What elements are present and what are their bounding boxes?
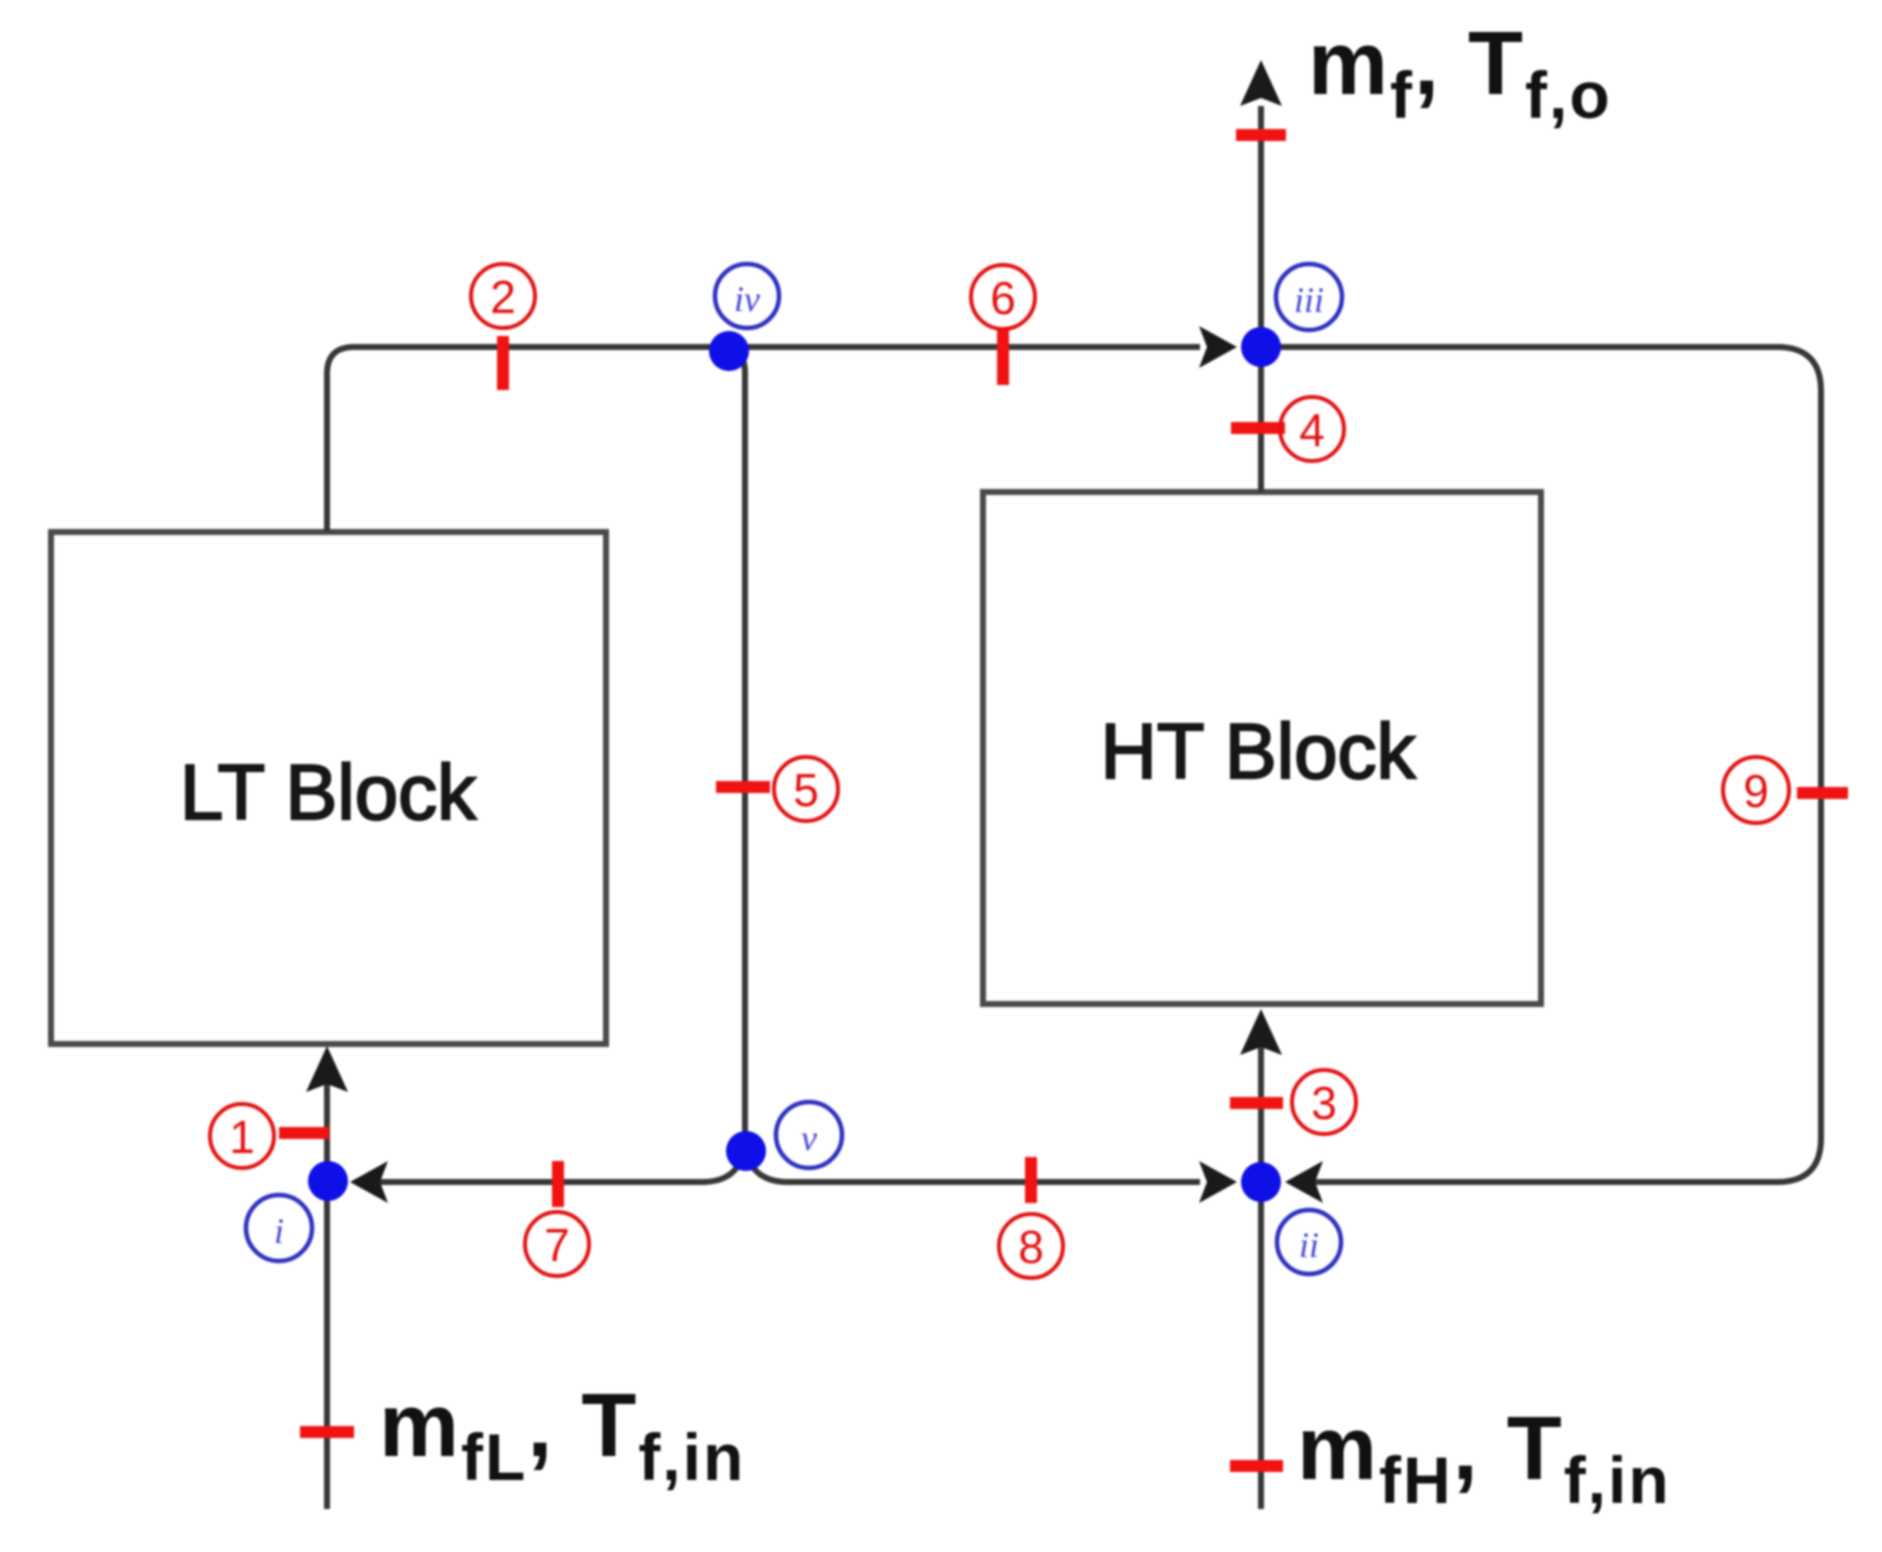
svg-text:3: 3 (1311, 1077, 1337, 1129)
svg-text:6: 6 (990, 272, 1016, 324)
svg-text:4: 4 (1299, 404, 1325, 456)
svg-text:2: 2 (490, 271, 516, 323)
svg-text:8: 8 (1018, 1221, 1044, 1273)
svg-text:9: 9 (1743, 765, 1769, 817)
svg-text:i: i (274, 1211, 284, 1251)
svg-text:1: 1 (229, 1111, 255, 1163)
svg-text:LT Block: LT Block (180, 748, 477, 836)
svg-text:ii: ii (1299, 1225, 1319, 1265)
svg-text:HT Block: HT Block (1101, 707, 1417, 795)
svg-text:7: 7 (544, 1219, 570, 1271)
svg-text:iii: iii (1294, 280, 1324, 320)
svg-text:5: 5 (793, 764, 819, 816)
svg-text:v: v (801, 1118, 817, 1158)
svg-text:iv: iv (734, 279, 760, 319)
